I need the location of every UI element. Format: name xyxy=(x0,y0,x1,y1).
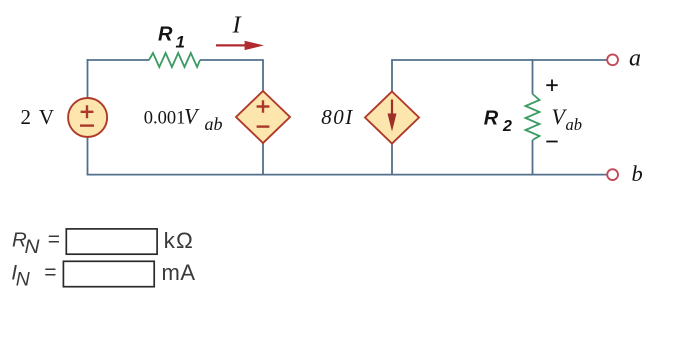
svg-text:ab: ab xyxy=(566,115,583,134)
svg-text:2: 2 xyxy=(502,118,512,135)
label Vab xyxy=(552,104,583,134)
label RN = xyxy=(12,228,60,258)
wire left vertical top xyxy=(87,59,89,98)
terminal a xyxy=(607,54,618,65)
answer box RN xyxy=(66,229,157,254)
svg-text:2 V: 2 V xyxy=(21,105,56,129)
label 0.001Vab xyxy=(144,104,223,134)
terminal b xyxy=(607,169,618,180)
wire dependent source bottom xyxy=(262,143,264,175)
svg-text:R: R xyxy=(158,24,173,46)
svg-text:N: N xyxy=(16,268,31,290)
svg-text:N: N xyxy=(25,236,41,258)
wire R2 vertical bottom xyxy=(532,140,534,175)
wire current source vertical bottom xyxy=(391,144,393,175)
svg-text:0.001: 0.001 xyxy=(144,109,186,129)
current arrow I xyxy=(216,41,264,50)
wire R2 vertical top xyxy=(532,59,534,94)
svg-text:a: a xyxy=(629,45,641,71)
label R1 xyxy=(158,24,185,52)
resistor R2 xyxy=(526,94,540,140)
plus sign above Vab xyxy=(546,80,557,92)
svg-text:=: = xyxy=(48,228,60,251)
svg-text:=: = xyxy=(44,261,56,284)
svg-text:ab: ab xyxy=(205,114,223,134)
svg-text:mA: mA xyxy=(162,260,196,285)
dependent voltage source 0.001Vab diamond xyxy=(236,91,290,143)
voltage source V1 (2 V) xyxy=(68,98,107,137)
dependent current source 80I diamond xyxy=(365,92,419,144)
svg-text:b: b xyxy=(632,161,643,186)
label R2 xyxy=(484,108,512,136)
wire top-right horizontal to terminal a xyxy=(392,59,607,61)
wire bottom horizontal xyxy=(87,174,607,176)
svg-text:80I: 80I xyxy=(321,105,354,129)
label IN = xyxy=(11,261,56,291)
wire current source vertical top xyxy=(391,59,393,91)
svg-text:R: R xyxy=(484,108,499,130)
svg-text:kΩ: kΩ xyxy=(164,228,194,253)
answer box IN xyxy=(63,261,154,286)
minus sign below Vab xyxy=(546,141,557,143)
wire left vertical bottom xyxy=(87,137,89,175)
resistor R1 xyxy=(149,53,200,67)
wire top-left horizontal xyxy=(87,59,149,61)
wire R1 right to corner down to dependent source xyxy=(200,60,263,91)
svg-text:1: 1 xyxy=(176,33,185,52)
